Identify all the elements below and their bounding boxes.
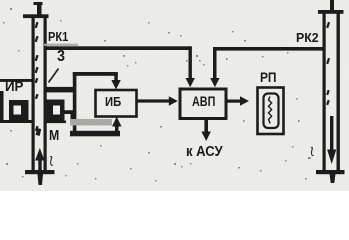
pipe P2 right column top stub	[330, 0, 334, 12]
block AVP box	[180, 89, 226, 119]
coil block M right of pipe	[45, 100, 65, 121]
pipe P1 bottom cap	[25, 170, 55, 174]
wire bus from AVP drop 2 to pipe P2 (PK2)	[213, 47, 323, 51]
label 3 electrode	[57, 48, 65, 66]
pipe P2 bottom stub	[330, 174, 336, 183]
smudge under PK1 label	[44, 44, 78, 46]
arrow up into IB bottom	[112, 117, 122, 133]
wire from coil M to loop bottom	[63, 110, 74, 124]
wire bus from pipe P1 (PK1) to AVP drop	[44, 46, 191, 50]
pipe P2 top cap	[318, 10, 344, 14]
pipe P1 bottom stub	[38, 174, 44, 185]
IR enclosure bottom line	[0, 120, 32, 123]
block IB box	[96, 90, 137, 117]
hatch blob inside pipe P1	[36, 128, 42, 136]
RP wavy element line	[269, 97, 272, 124]
pipe P1 right wall	[44, 16, 47, 170]
arrow from AVP down to ASU	[201, 119, 211, 142]
arrow down into IB top	[111, 73, 121, 90]
label PK2	[296, 30, 319, 45]
pointer line from label 3 to electrode	[49, 69, 59, 83]
wire loop top run to IB	[73, 72, 118, 76]
pipe P1 top cap	[23, 14, 49, 18]
pipe P2 hatch ticks	[326, 22, 330, 105]
label M	[49, 127, 59, 144]
paper texture	[0, 0, 349, 191]
wire loop bottom run to IB	[70, 131, 120, 137]
label RP	[260, 69, 276, 85]
IR enclosure top line	[0, 79, 32, 82]
label PK1	[48, 29, 68, 44]
gray smudged wire below IB	[70, 119, 112, 126]
label IB	[105, 95, 121, 109]
small script mark near pipe P1 bottom	[50, 157, 53, 166]
small script mark near pipe P2 bottom	[308, 147, 314, 158]
flow arrow up inside pipe P1	[35, 148, 44, 171]
scan noise specks	[3, 8, 307, 182]
line under coil M	[45, 121, 66, 124]
pipe P2 right wall	[337, 13, 340, 170]
RP inner rounded element	[264, 94, 279, 129]
electrode wire from pipe to loop vertical	[45, 87, 75, 93]
wire loop left vertical	[73, 72, 77, 135]
pipe P1 left wall	[32, 16, 35, 170]
label k ASU	[186, 144, 223, 160]
label AVP	[192, 94, 215, 109]
label IR	[5, 78, 23, 94]
block RP box	[258, 88, 284, 135]
pipe P2 left wall	[323, 13, 326, 170]
pipe P1 left column top stub	[34, 2, 43, 16]
arrow from IB to AVP	[137, 96, 178, 105]
coil block left of pipe	[9, 100, 29, 120]
IR enclosure left edge bar	[0, 91, 4, 122]
pipe P2 bottom cap	[316, 170, 345, 174]
arrow from AVP to RP	[226, 96, 249, 105]
wire drop 2 with arrow into AVP top	[210, 47, 219, 87]
flow arrow down inside pipe P2	[327, 116, 336, 164]
pipe P1 hatch ticks	[35, 22, 39, 131]
wire drop 1 with arrow into AVP top	[186, 46, 195, 87]
